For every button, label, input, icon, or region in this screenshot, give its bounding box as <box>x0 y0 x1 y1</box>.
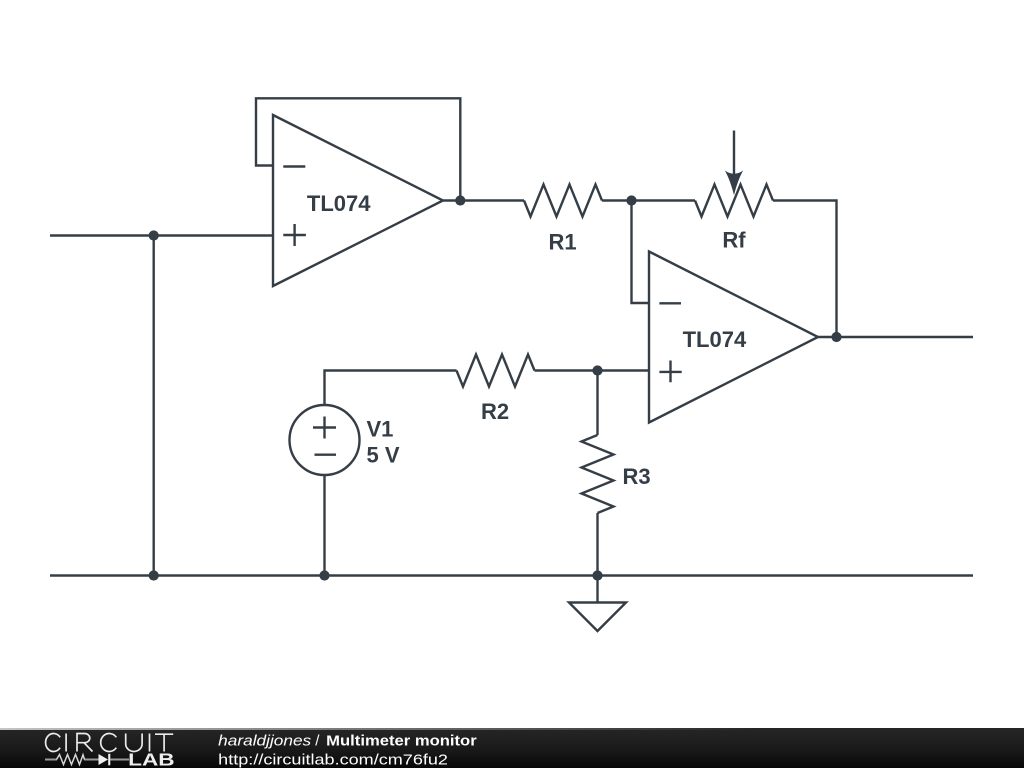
junction node <box>592 570 602 580</box>
junction node <box>149 230 159 240</box>
logo letter U <box>126 734 142 752</box>
wire V1 bottom <box>323 475 325 576</box>
svg-text:Rf: Rf <box>722 228 746 253</box>
resistor R3 <box>582 435 614 513</box>
V1 plus sign <box>313 417 336 439</box>
svg-text:TL074: TL074 <box>307 191 371 216</box>
svg-text:R3: R3 <box>623 464 651 489</box>
wire node to R3 <box>596 371 598 436</box>
svg-text:http://circuitlab.com/cm76fu2: http://circuitlab.com/cm76fu2 <box>218 751 448 768</box>
op-amp U1 <box>273 115 443 286</box>
junction node <box>319 570 329 580</box>
logo letter T <box>155 734 173 751</box>
junction node <box>831 332 841 342</box>
op-amp U2 minus pin <box>659 302 681 304</box>
wire bottom rail <box>50 574 973 576</box>
logo letter C <box>46 734 61 752</box>
logo diode triangle <box>99 754 109 765</box>
wire R2 to U2 non-inverting input <box>535 369 650 371</box>
logo letter I <box>65 734 67 752</box>
V1 minus sign <box>315 454 337 456</box>
wire U2 output <box>818 336 973 338</box>
Rf wiper arrow <box>733 131 735 179</box>
junction node <box>626 195 636 205</box>
wire R3 to rail <box>596 513 598 576</box>
junction node <box>455 195 465 205</box>
logo letter I <box>149 734 151 752</box>
op-amp U2 <box>649 252 818 423</box>
wire left vertical <box>152 236 154 576</box>
Rf wiper arrowhead <box>725 170 743 195</box>
op-amp U1 plus pin <box>283 224 306 246</box>
wire V1 to R2 <box>325 371 457 406</box>
logo wire left <box>45 759 57 761</box>
op-amp U2 plus pin <box>659 361 681 383</box>
svg-text:Multimeter monitor: Multimeter monitor <box>326 733 477 750</box>
resistor R1 <box>524 185 602 217</box>
wire Rf to U2 output node <box>773 201 837 338</box>
logo wire right <box>110 759 129 761</box>
logo wire middle <box>84 759 99 761</box>
logo letter C <box>101 734 117 752</box>
footer bar <box>0 728 1024 768</box>
op-amp U1 minus pin <box>283 165 305 167</box>
logo diode bar <box>108 754 110 766</box>
svg-text:TL074: TL074 <box>683 327 747 352</box>
ground stub <box>596 576 598 603</box>
junction node <box>149 570 159 580</box>
svg-text:/: / <box>315 733 320 750</box>
voltage source V1 <box>290 405 360 475</box>
wire node to U2 inverting input <box>632 201 650 304</box>
svg-text:LAB: LAB <box>128 750 174 768</box>
logo resistor glyph <box>57 755 85 765</box>
wire R1 to Rf <box>602 199 695 201</box>
ground <box>569 603 626 632</box>
junction node <box>592 365 602 375</box>
svg-text:R1: R1 <box>548 230 576 255</box>
logo letter R <box>77 734 93 752</box>
wire U1 output <box>443 199 524 201</box>
svg-text:V1: V1 <box>367 417 394 442</box>
wire left input <box>50 234 273 236</box>
svg-text:R2: R2 <box>481 399 509 424</box>
wire op-amp U1 feedback loop <box>256 98 460 200</box>
resistor R2 <box>457 355 535 387</box>
resistor Rf potentiometer <box>695 185 773 217</box>
svg-text:5 V: 5 V <box>367 443 400 468</box>
svg-text:haraldjjones: haraldjjones <box>218 733 312 750</box>
